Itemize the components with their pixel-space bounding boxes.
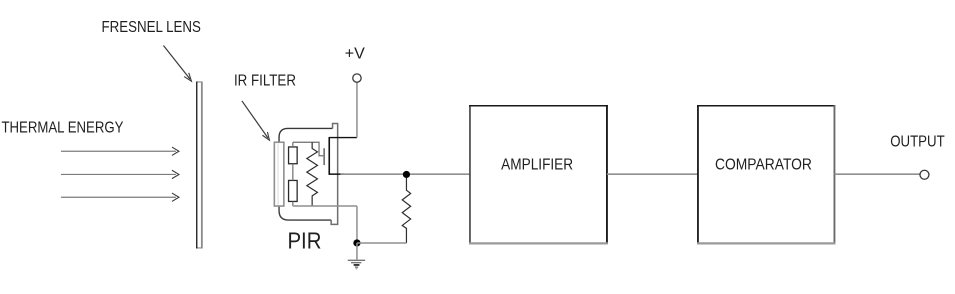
comparator block: [697, 105, 835, 244]
svg-text:COMPARATOR: COMPARATOR: [715, 156, 812, 173]
leader arrow to IR filter window: [242, 101, 270, 140]
ground stub wire: [356, 243, 358, 260]
junction dot output node: [403, 171, 410, 178]
svg-text:OUTPUT: OUTPUT: [890, 133, 945, 150]
wire comparator to output: [834, 173, 920, 175]
svg-text:+V: +V: [345, 45, 365, 62]
svg-text:THERMAL ENERGY: THERMAL ENERGY: [1, 119, 123, 136]
ground rail wire out of can: [293, 205, 357, 207]
external resistor R2: [402, 178, 410, 243]
ground symbol: [348, 260, 365, 269]
fresnel lens: [197, 81, 202, 248]
pyro element E1: [289, 147, 298, 164]
JFET Q1 source lead: [329, 173, 345, 175]
element link wires: [292, 142, 294, 206]
junction dot ground node: [353, 239, 360, 246]
svg-text:FRESNEL LENS: FRESNEL LENS: [101, 19, 201, 36]
+V terminal circle: [353, 74, 361, 82]
PIR sensor can housing bottom edge: [279, 206, 331, 220]
+V supply wire: [356, 82, 358, 137]
svg-text:PIR: PIR: [287, 228, 321, 254]
JFET Q1 gate bar: [323, 148, 325, 165]
output terminal circle: [920, 170, 929, 179]
thermal ray arrow 1: [61, 147, 179, 155]
internal resistor R1: [307, 142, 318, 206]
internal top rail wire to gate: [293, 142, 324, 156]
JFET Q1 channel: [328, 137, 330, 175]
ground drop wire: [356, 206, 358, 243]
PIR sensor can housing top edge: [279, 128, 333, 142]
output wire PIR to amplifier: [340, 173, 470, 175]
amplifier block: [469, 105, 608, 244]
svg-text:AMPLIFIER: AMPLIFIER: [501, 156, 573, 173]
leader arrow to fresnel lens: [163, 45, 191, 81]
pyro element E2: [289, 180, 298, 201]
IR filter window: [274, 142, 284, 206]
svg-text:IR FILTER: IR FILTER: [234, 72, 296, 89]
thermal ray arrow 3: [61, 193, 179, 201]
JFET Q1 drain lead: [329, 137, 357, 139]
wire amplifier to comparator: [607, 173, 698, 175]
resistor R2 bottom wire: [357, 242, 407, 244]
thermal ray arrow 2: [61, 170, 179, 178]
PIR sensor can flange and right edge: [331, 123, 338, 224]
